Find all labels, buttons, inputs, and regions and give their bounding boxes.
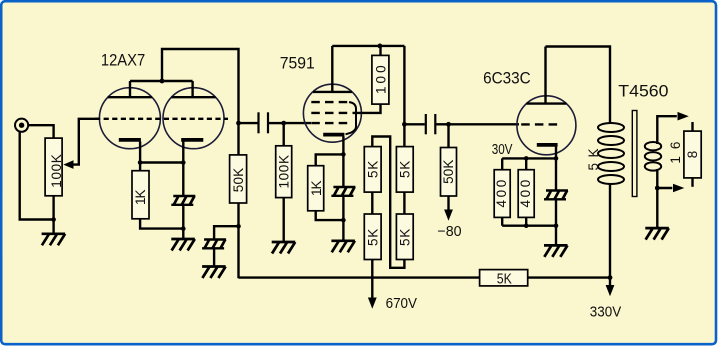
svg-text:5K: 5K (366, 161, 381, 178)
wire grid node to tube (284, 122, 311, 124)
input jack J (15, 119, 28, 132)
svg-text:1K: 1K (133, 190, 148, 206)
capacitor (V1 cathode bypass) (171, 163, 195, 229)
wire jack to pot top (29, 125, 54, 138)
resistor 400 (cathode a) (494, 158, 510, 225)
wire node to jack sleeve (20, 131, 54, 219)
node cathode b (181, 160, 186, 165)
wire cathode bottom tie (502, 224, 556, 226)
ground (6C33C cathode) (544, 245, 568, 257)
wire to ground (182, 229, 184, 239)
g3 to cathode tie (346, 102, 357, 134)
node coupling 2 (402, 122, 407, 127)
core (632, 111, 637, 197)
ground (grid leak) (272, 242, 296, 254)
ground (V1 cathode) (171, 239, 195, 251)
capacitor (7591 cathode bypass) (331, 154, 355, 220)
wire plate tie (130, 80, 193, 82)
grid line V1 (dashed) (95, 118, 228, 120)
wire feedback rail down (237, 226, 239, 278)
arrow 330V (606, 285, 615, 296)
svg-text:12AX7: 12AX7 (101, 51, 145, 70)
svg-text:50K: 50K (231, 168, 246, 192)
wire to ground (555, 226, 557, 246)
pentode 7591 envelope (303, 84, 361, 142)
cathode V1b (181, 140, 203, 163)
wire rail down to divider (403, 46, 405, 147)
arrow 16 ohm tap (678, 112, 689, 121)
node grid 7591 (281, 121, 286, 126)
wire cap1 to grid node (269, 122, 284, 124)
wire (371, 192, 373, 214)
resistor 400 (cathode b) (518, 158, 534, 225)
wire node to ground (52, 220, 54, 234)
cathode 6C33C (537, 145, 558, 159)
wire primary bottom (609, 184, 611, 278)
wire feedback rail right (528, 276, 610, 278)
node secondary (655, 186, 660, 191)
wire secondary bottom (657, 169, 672, 188)
wire 7591 plate rail (332, 45, 404, 47)
node screen rail (378, 44, 383, 49)
node plate tie (160, 79, 165, 84)
svg-text:400: 400 (494, 180, 509, 208)
resistor 5K (divider B2) (396, 214, 413, 260)
node feedback (236, 224, 241, 229)
grid 6C33C (dashed) (521, 123, 561, 125)
resistor 1K (V1 cathode) (132, 163, 183, 229)
arrow 670V (368, 298, 377, 309)
resistor 5K (divider B1) (396, 147, 413, 193)
node (554, 223, 559, 228)
resistor 50K (bias feed) (441, 124, 457, 210)
svg-text:−80: −80 (437, 224, 461, 240)
resistor 50K (V1 plate load) (230, 123, 247, 226)
wire cathode tie (502, 157, 556, 159)
primary winding (598, 123, 624, 184)
triode 6C33C envelope (517, 96, 576, 155)
svg-text:6C33C: 6C33C (483, 69, 531, 88)
capacitor C2 (coupling) (426, 114, 436, 134)
wire (403, 192, 405, 214)
arrow -80 (444, 210, 453, 221)
ground (feedback) (202, 267, 226, 279)
wire grid node to tube (449, 123, 520, 125)
triode V1a envelope (99, 88, 160, 149)
node (524, 156, 529, 161)
wire to 670V (371, 260, 373, 299)
load 8 (684, 122, 701, 187)
wire secondary top (657, 116, 677, 144)
potentiometer 100K (45, 138, 64, 196)
plate V1a (108, 81, 152, 97)
svg-text:5K: 5K (497, 271, 512, 287)
wire divider B to divider A top (372, 137, 404, 268)
svg-text:50K: 50K (441, 160, 456, 184)
wire node to cap1 (239, 122, 258, 124)
node 330V (608, 275, 613, 280)
pot wiper arrow (63, 119, 100, 169)
wire feedback rail (239, 276, 480, 278)
ground (secondary) (645, 228, 669, 240)
ground (7591 cathode) (331, 241, 355, 253)
wire g2 to resistor 100 (353, 104, 381, 113)
svg-text:5K: 5K (398, 229, 413, 246)
ground (input) (42, 234, 66, 246)
grid g3 (dashed) (311, 101, 349, 103)
wire 6C33C plate to transformer (546, 47, 611, 124)
plate 7591 (313, 46, 352, 92)
capacitor C1 (coupling) (259, 112, 269, 133)
grid g2 (dashed) (311, 112, 349, 114)
svg-text:5K: 5K (398, 161, 413, 178)
wire arrow shaft (609, 278, 611, 287)
wire node to cap (214, 226, 238, 239)
node (524, 223, 529, 228)
resistor 5K (feedback) (480, 270, 528, 288)
node cathode a (138, 160, 143, 165)
svg-text:670V: 670V (386, 296, 418, 312)
svg-text:100K: 100K (276, 155, 291, 189)
svg-text:7591: 7591 (280, 54, 315, 73)
node (554, 156, 559, 161)
wire riser to top rail (162, 49, 239, 123)
node pot bottom (51, 217, 56, 222)
capacitor (6C33C cathode bypass) (544, 158, 568, 225)
capacitor (feedback bypass) (202, 240, 226, 267)
wire to ground (342, 220, 344, 241)
node 7591 cathode bottom (341, 218, 346, 223)
cathode 7591 (323, 135, 344, 155)
node grid 6C33C (446, 122, 451, 127)
svg-text:8: 8 (685, 151, 700, 159)
node 7591 cathode (341, 152, 346, 157)
resistor 5K (divider A2) (364, 214, 381, 260)
secondary winding (645, 142, 661, 171)
resistor 100 (screen) (372, 46, 389, 104)
resistor 5K (divider A1) (364, 147, 381, 193)
svg-text:100: 100 (373, 65, 388, 94)
svg-text:330V: 330V (590, 305, 622, 321)
cathode V1a (119, 140, 141, 163)
svg-text:100K: 100K (49, 154, 64, 188)
plate V1b (171, 81, 215, 97)
node cathode network (181, 226, 186, 231)
grid g1 (dashed) (311, 122, 349, 124)
wire pot bottom to node (52, 196, 54, 220)
svg-text:1K: 1K (309, 181, 324, 197)
arrow common tap (673, 184, 684, 193)
wire cap2 to grid node (436, 123, 448, 125)
svg-text:400: 400 (518, 180, 533, 208)
wire cathode tie (140, 161, 183, 163)
svg-text:T4560: T4560 (618, 81, 668, 100)
resistor 1K (7591 cathode) (308, 154, 344, 220)
resistor 100K (7591 grid leak) (276, 123, 292, 242)
plate 6C33C (526, 47, 566, 104)
svg-text:30V: 30V (492, 142, 513, 158)
node coupling 1 (236, 121, 241, 126)
wire to ground (656, 188, 658, 228)
svg-text:5K: 5K (366, 229, 381, 246)
triode V1b envelope (163, 88, 224, 149)
wire node to cap2 (404, 123, 424, 125)
